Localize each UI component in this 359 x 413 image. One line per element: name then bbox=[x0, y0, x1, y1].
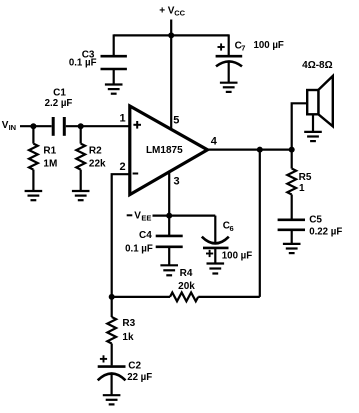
svg-text:1M: 1M bbox=[43, 159, 57, 170]
svg-text:R1: R1 bbox=[43, 145, 56, 156]
pin 4 bbox=[211, 136, 218, 148]
svg-text:C1: C1 bbox=[53, 87, 66, 98]
ground C4 bbox=[160, 265, 178, 275]
pin 1 bbox=[119, 112, 125, 124]
pin 3 bbox=[173, 175, 179, 187]
capacitor C2 bbox=[98, 367, 126, 396]
junction VIN R1 bbox=[30, 123, 36, 129]
svg-text:6: 6 bbox=[230, 224, 234, 233]
ground C2 bbox=[103, 395, 121, 404]
ground R2 bbox=[72, 191, 90, 200]
junction output feedback bbox=[257, 147, 263, 153]
polarity + C2 bbox=[100, 355, 107, 362]
svg-text:R3: R3 bbox=[122, 318, 135, 329]
svg-text:1: 1 bbox=[299, 183, 305, 194]
junction -VEE C4 bbox=[166, 213, 172, 219]
svg-text:100 µF: 100 µF bbox=[222, 250, 252, 261]
resistor R2 bbox=[76, 126, 85, 191]
wire feedback vertical bbox=[259, 150, 261, 297]
label C7 bbox=[235, 40, 246, 52]
label C4 bbox=[139, 230, 152, 241]
svg-text:0.22 µF: 0.22 µF bbox=[309, 227, 342, 238]
op-amp U1 LM1875 bbox=[130, 106, 208, 195]
pin 2 bbox=[120, 161, 126, 173]
speaker LS1 bbox=[307, 76, 333, 132]
svg-text:0.1 µF: 0.1 µF bbox=[125, 244, 153, 255]
value 0.1 uF C4 bbox=[125, 244, 153, 255]
value 1M bbox=[43, 159, 57, 170]
svg-text:20k: 20k bbox=[178, 281, 195, 292]
svg-text:1: 1 bbox=[119, 112, 125, 124]
resistor R4 bbox=[170, 293, 198, 302]
wire feedback left bbox=[112, 296, 170, 298]
svg-text:22 µF: 22 µF bbox=[127, 372, 152, 383]
label C6 bbox=[223, 221, 234, 233]
capacitor C5 bbox=[278, 220, 305, 244]
svg-text:CC: CC bbox=[174, 8, 185, 17]
capacitor C4 bbox=[156, 216, 183, 266]
svg-text:LM1875: LM1875 bbox=[146, 145, 183, 156]
svg-text:2.2 µF: 2.2 µF bbox=[45, 98, 73, 109]
svg-text:EE: EE bbox=[141, 214, 151, 223]
noninverting + symbol bbox=[133, 121, 141, 129]
svg-text:2: 2 bbox=[120, 161, 126, 173]
polarity + C6 bbox=[206, 250, 213, 257]
label R5 bbox=[299, 172, 312, 183]
wire +VCC rail bbox=[114, 34, 229, 36]
label R1 bbox=[43, 145, 56, 156]
svg-text:C2: C2 bbox=[128, 360, 141, 371]
resistor R5 bbox=[287, 150, 296, 220]
junction output speaker bbox=[289, 147, 295, 153]
svg-text:4Ω-8Ω: 4Ω-8Ω bbox=[302, 60, 333, 71]
value 100 uF C7 bbox=[254, 40, 284, 51]
svg-text:5: 5 bbox=[173, 115, 179, 127]
wire C1 to pin 1 bbox=[66, 125, 130, 127]
wire VIN to C1 bbox=[20, 125, 52, 127]
ground R1 bbox=[25, 191, 43, 200]
junction +VCC rail bbox=[168, 32, 174, 38]
svg-text:22k: 22k bbox=[89, 159, 106, 170]
pin 5 bbox=[173, 115, 179, 127]
label C1 bbox=[53, 87, 66, 98]
power +VCC bbox=[159, 5, 185, 17]
value 2.2 uF C1 bbox=[45, 98, 73, 109]
capacitor C3 bbox=[101, 34, 127, 84]
svg-text:3: 3 bbox=[173, 175, 179, 187]
wire pin 3 down bbox=[168, 171, 170, 216]
label C5 bbox=[309, 215, 322, 226]
svg-text:7: 7 bbox=[241, 44, 245, 53]
capacitor C7 bbox=[216, 34, 243, 82]
junction C1 R2 bbox=[78, 123, 84, 129]
label VIN bbox=[2, 120, 16, 132]
svg-text:0.1 µF: 0.1 µF bbox=[69, 57, 97, 68]
value 22 uF C2 bbox=[127, 372, 152, 383]
label R3 bbox=[122, 318, 135, 329]
inverting - symbol bbox=[133, 173, 139, 175]
svg-text:100 µF: 100 µF bbox=[254, 40, 284, 51]
ground C6 bbox=[207, 264, 225, 274]
label C3 bbox=[82, 50, 95, 61]
wire output to speaker bbox=[292, 103, 308, 149]
ground C7 bbox=[220, 83, 238, 92]
wire +VCC stem and pin 5 lead bbox=[170, 20, 172, 130]
label R2 bbox=[89, 145, 102, 156]
capacitor C6 bbox=[202, 216, 229, 264]
svg-text:R2: R2 bbox=[89, 145, 102, 156]
polarity + C7 bbox=[218, 43, 225, 50]
value 0.1 uF C3 bbox=[69, 57, 97, 68]
svg-text:R5: R5 bbox=[299, 172, 312, 183]
label R4 bbox=[180, 268, 193, 279]
svg-text:1k: 1k bbox=[122, 332, 134, 343]
svg-text:V: V bbox=[134, 211, 141, 222]
value 1 R5 bbox=[299, 183, 305, 194]
resistor R1 bbox=[29, 126, 38, 191]
svg-text:IN: IN bbox=[9, 123, 17, 132]
junction feedback R3 bbox=[109, 294, 115, 300]
svg-text:C5: C5 bbox=[309, 215, 322, 226]
wire output bbox=[208, 149, 292, 151]
value 100 uF C6 bbox=[222, 250, 252, 261]
value 1k bbox=[122, 332, 134, 343]
value 0.22 uF C5 bbox=[309, 227, 342, 238]
wire -VEE node bbox=[153, 215, 216, 217]
wire R4 to feedback vertical bbox=[198, 296, 260, 298]
svg-text:+ V: + V bbox=[159, 5, 175, 16]
svg-text:R4: R4 bbox=[180, 268, 193, 279]
label speaker impedance 4-8 ohm bbox=[302, 60, 333, 71]
ground C3 bbox=[105, 85, 123, 94]
wire pin 2 to feedback node bbox=[112, 174, 130, 297]
power -VEE bbox=[127, 211, 152, 223]
value 22k bbox=[89, 159, 106, 170]
svg-text:4: 4 bbox=[211, 136, 218, 148]
resistor R3 bbox=[107, 297, 116, 366]
svg-text:C4: C4 bbox=[139, 230, 152, 241]
value 20k bbox=[178, 281, 195, 292]
ground C5 bbox=[283, 244, 301, 253]
ground speaker bbox=[304, 132, 322, 141]
capacitor C1 bbox=[53, 117, 64, 136]
label C2 bbox=[128, 360, 141, 371]
label LM1875 bbox=[146, 145, 183, 156]
